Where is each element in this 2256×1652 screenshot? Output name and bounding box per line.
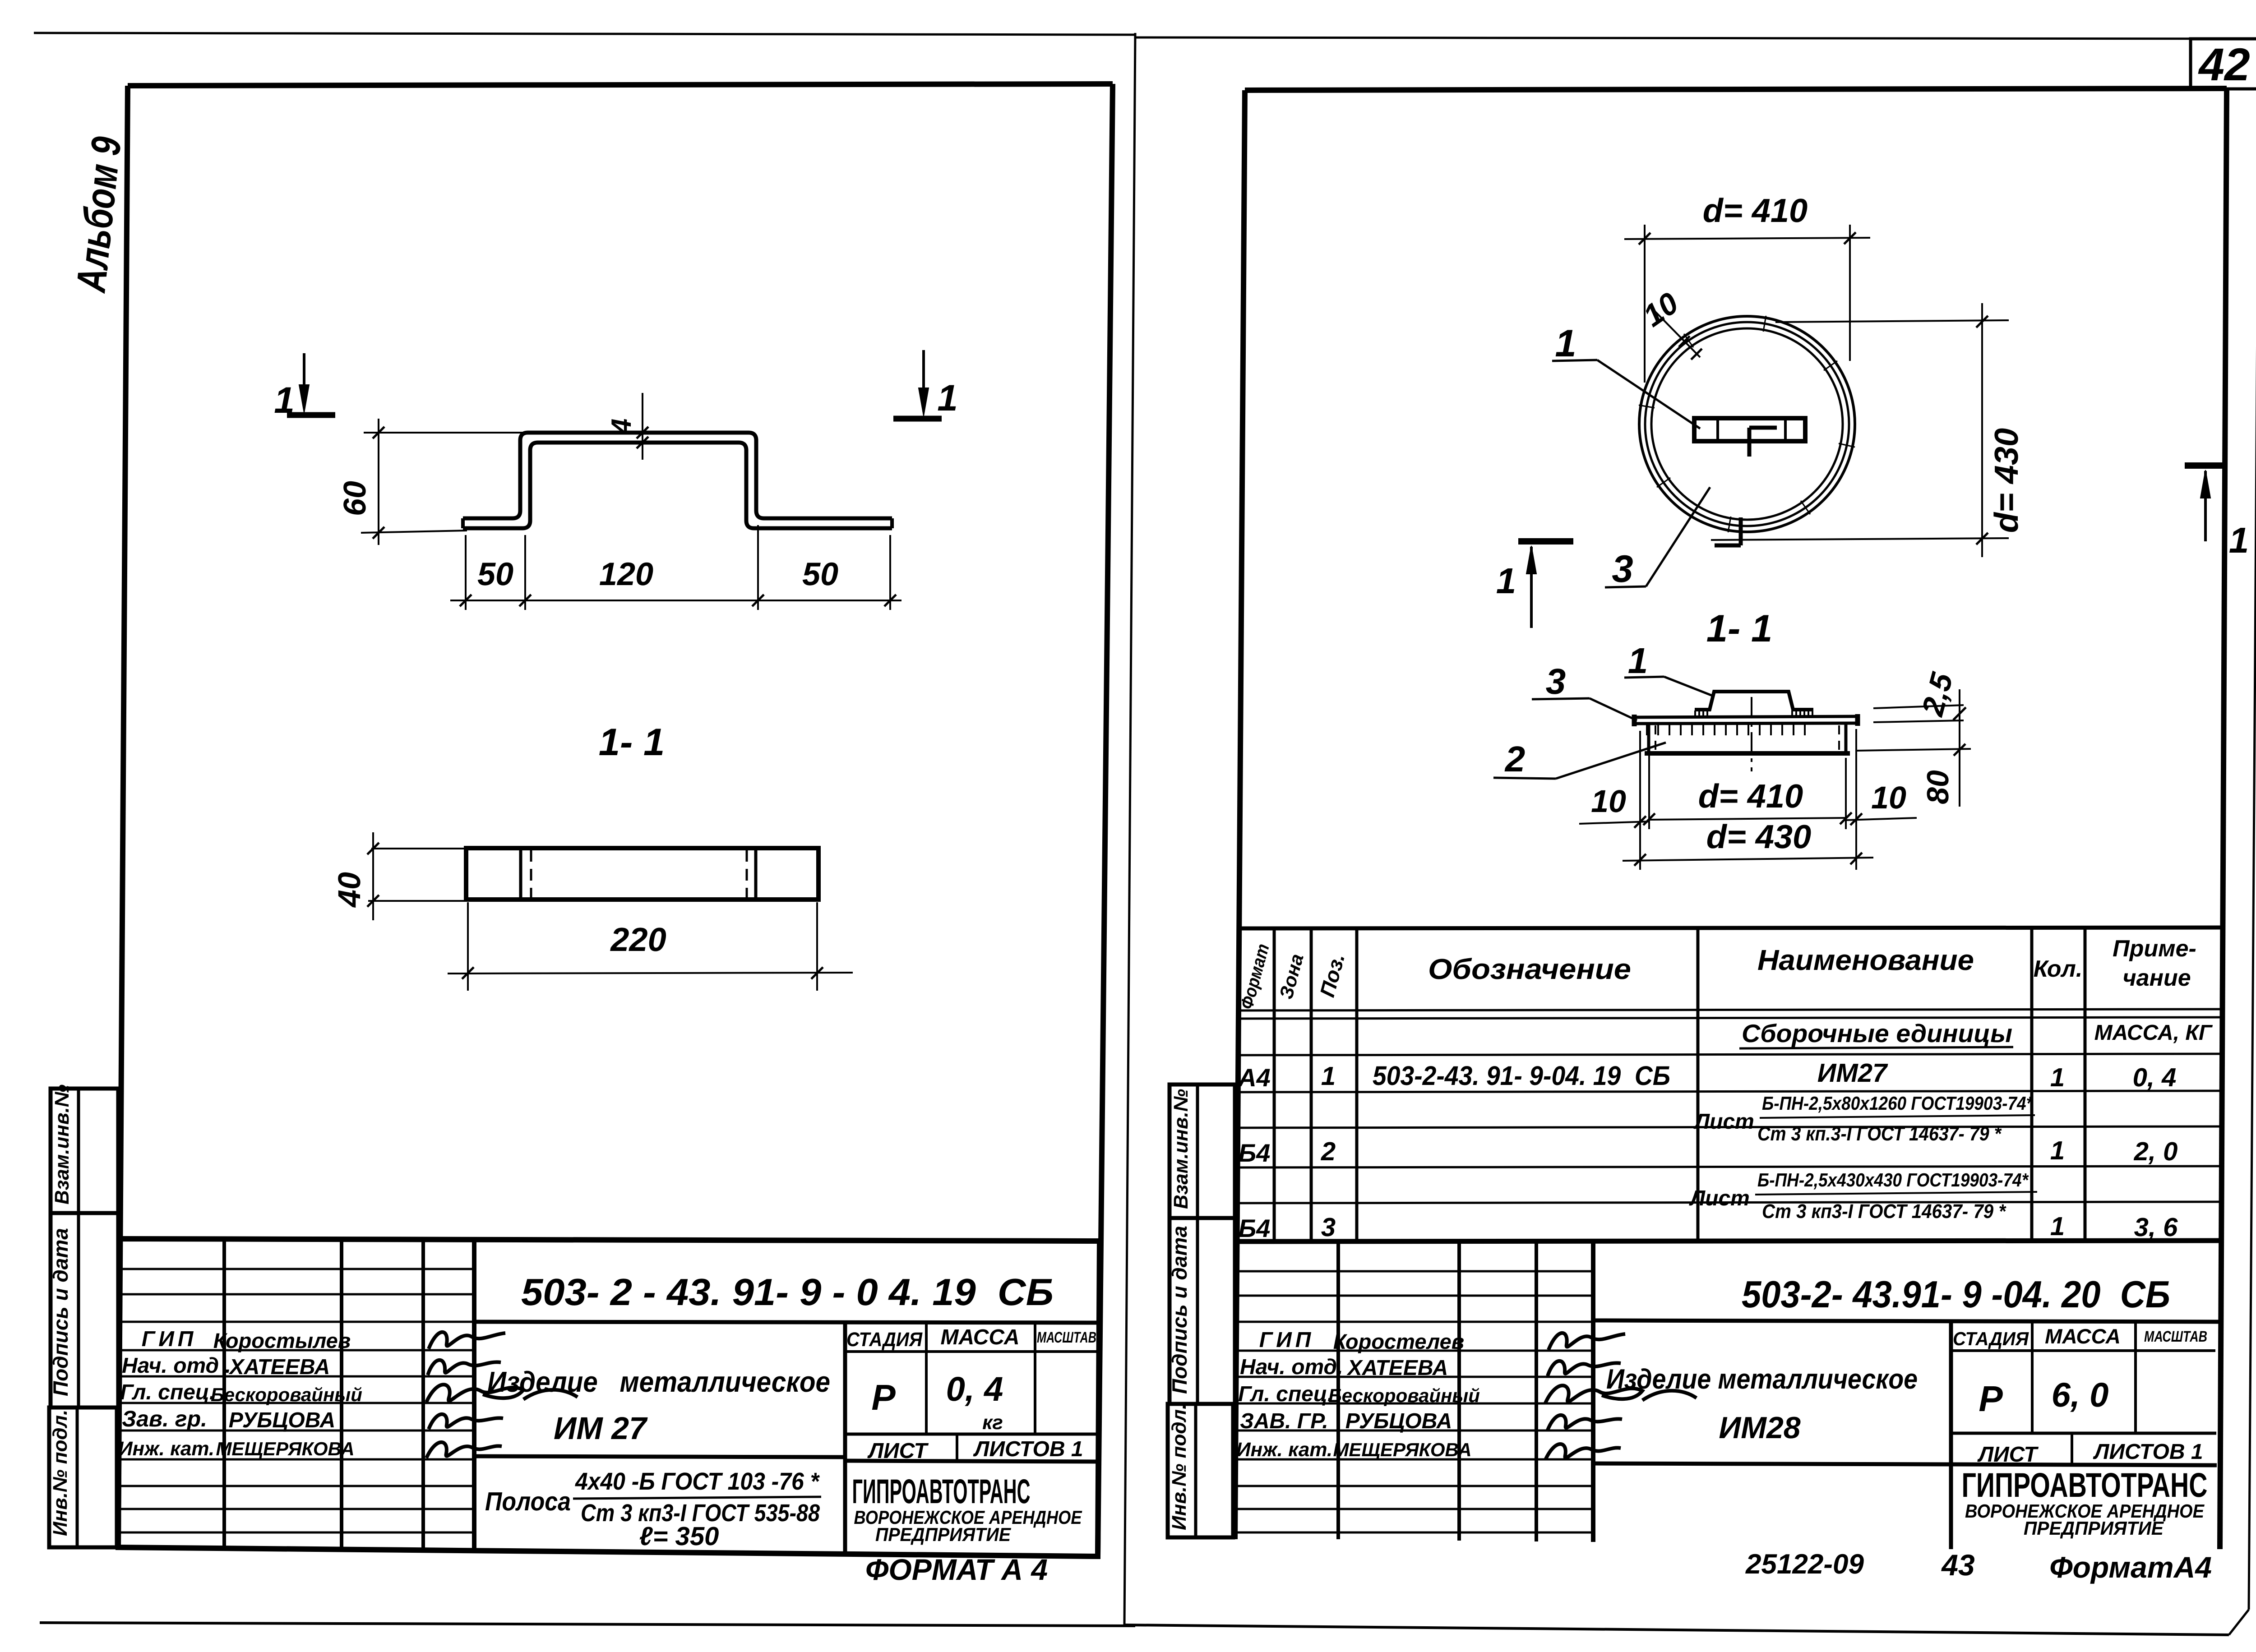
svg-text:d= 430: d= 430 (1988, 428, 2025, 533)
spec col line oboznachenie (1697, 928, 1700, 1241)
signature row4 right (1548, 1415, 1622, 1430)
spec header bottom double line (1237, 1009, 2221, 1011)
dimension 2.5 (1873, 705, 1964, 708)
svg-text:43: 43 (1941, 1548, 1974, 1582)
spec col line naimenovanie (2030, 928, 2034, 1241)
svg-text:Инв.№ подл.: Инв.№ подл. (49, 1410, 71, 1536)
svg-text:1: 1 (274, 380, 295, 421)
left tb personnel row line 2 (118, 1293, 474, 1296)
svg-text:ФорматА4: ФорматА4 (2049, 1550, 2212, 1584)
svg-text:МЕЩЕРЯКОВА: МЕЩЕРЯКОВА (1333, 1439, 1471, 1460)
svg-text:10: 10 (1871, 780, 1906, 815)
svg-text:МАССА: МАССА (940, 1325, 1019, 1349)
right tb stadia col left (1949, 1320, 1953, 1549)
svg-text:10: 10 (1591, 784, 1626, 819)
signature row4 left (429, 1414, 503, 1429)
signature row3 left (426, 1384, 578, 1402)
svg-text:503- 2 - 43. 91- 9 - 0 4. 19: 503- 2 - 43. 91- 9 - 0 4. 19 СБ (521, 1271, 1054, 1313)
right tb personnel col line 1 (1336, 1241, 1340, 1539)
right frame top (1245, 88, 2227, 90)
page number 42 box (2191, 39, 2256, 89)
svg-text:Нач. отд .: Нач. отд . (122, 1354, 231, 1378)
svg-text:1: 1 (1628, 641, 1648, 681)
dimension 50-120-50 (465, 535, 467, 610)
svg-text:Р: Р (1979, 1379, 2003, 1419)
spec row line 3 (1237, 1126, 2221, 1128)
left frame left edge (118, 86, 128, 1547)
svg-text:ИМ 27: ИМ 27 (554, 1411, 648, 1446)
strip bend line left dashed (530, 850, 532, 898)
left tb product cell bottom (474, 1456, 845, 1457)
svg-text:СТАДИЯ: СТАДИЯ (846, 1329, 923, 1351)
left title block outer border (118, 1239, 1100, 1556)
left stamp box Inv.N podl. (49, 1407, 117, 1547)
svg-text:1: 1 (2050, 1063, 2065, 1092)
svg-text:Нач. отд.: Нач. отд. (1240, 1355, 1343, 1379)
svg-text:Коростылев: Коростылев (213, 1329, 351, 1352)
left tb massa-masshtab divider (1034, 1322, 1036, 1434)
svg-text:ГИПРОАВТОТРАНС: ГИПРОАВТОТРАНС (852, 1472, 1031, 1511)
spec col line poz (1355, 928, 1359, 1241)
right tb list row top (1951, 1432, 2216, 1435)
circle section mark bottom-left (1518, 538, 1573, 545)
svg-text:3: 3 (1546, 661, 1566, 701)
section mark 1 right (893, 416, 942, 422)
left tb personnel row line 8 (118, 1458, 474, 1461)
svg-text:Изделие металлическое: Изделие металлическое (1606, 1364, 1918, 1395)
svg-text:СТАДИЯ: СТАДИЯ (1953, 1328, 2029, 1349)
hat profile right end cap (890, 518, 894, 528)
svg-text:кг: кг (982, 1412, 1003, 1434)
spec col line zona (1310, 928, 1313, 1241)
right stamp box Podpis i data (1170, 1218, 1235, 1404)
svg-text:120: 120 (599, 556, 653, 592)
svg-text:Подпись и дата: Подпись и дата (1168, 1226, 1191, 1394)
hat profile inner line (463, 443, 892, 528)
signature row5 right (1545, 1444, 1621, 1460)
svg-text:Приме-: Приме- (2113, 936, 2196, 962)
right tb massa-masshtab divider (2134, 1320, 2137, 1433)
signature row2 left (428, 1360, 501, 1375)
right tb personnel col line 4 / designation cell left (1591, 1241, 1595, 1542)
right frame right edge (2220, 88, 2227, 1549)
svg-text:220: 220 (610, 921, 666, 958)
svg-text:МАСШТАВ: МАСШТАВ (2144, 1328, 2207, 1345)
svg-text:ПРЕДПРИЯТИЕ: ПРЕДПРИЯТИЕ (2024, 1518, 2164, 1539)
svg-text:ЛИСТОВ 1: ЛИСТОВ 1 (2093, 1440, 2203, 1464)
left page bottom border (40, 1623, 1135, 1626)
right tb org cell top (1951, 1464, 2217, 1465)
signature GIP right (1549, 1333, 1625, 1350)
shell bottom edge (1645, 751, 1850, 756)
right frame left edge (1235, 90, 1245, 1539)
svg-text:25122-09: 25122-09 (1745, 1549, 1864, 1580)
left tb stadia-massa divider (925, 1322, 928, 1434)
bracket plan bend line left (1716, 418, 1719, 441)
svg-text:МЕЩЕРЯКОВА: МЕЩЕРЯКОВА (216, 1438, 354, 1459)
section trace lower hook (1739, 517, 1743, 545)
section trace upper hook (1747, 428, 1752, 457)
svg-text:2, 0: 2, 0 (2134, 1137, 2178, 1166)
dimension 80 (1856, 749, 1971, 751)
left material fraction bar (573, 1497, 821, 1499)
left tb personnel col line 2 (340, 1239, 343, 1549)
right tb personnel row line 10 (1235, 1508, 1593, 1510)
svg-text:Бескоровайный: Бескоровайный (211, 1384, 362, 1405)
dimension 10 left (1579, 821, 1650, 824)
svg-text:МАСШТАВ: МАСШТАВ (1037, 1329, 1096, 1346)
spec col line format (1273, 928, 1276, 1241)
svg-text:Обозначение: Обозначение (1428, 953, 1631, 985)
right tb personnel col line 2 (1457, 1241, 1461, 1541)
svg-text:Лист: Лист (1689, 1186, 1750, 1210)
bracket IM27 in section (1695, 692, 1813, 710)
svg-text:ГИП: ГИП (142, 1327, 197, 1351)
dimension 220 (467, 902, 469, 991)
right tb personnel row line 5 (1235, 1376, 1593, 1378)
dimension d430 right (1775, 320, 2009, 322)
dimension 4 (642, 393, 643, 460)
right tb list-listov divider (2071, 1433, 2073, 1465)
right tb personnel row line 2 (1235, 1295, 1593, 1297)
spec row line 4 (1237, 1166, 2221, 1167)
dimension 60 (364, 432, 527, 434)
svg-text:Инж. кат.: Инж. кат. (118, 1438, 214, 1460)
svg-text:ГИПРОАВТОТРАНС: ГИПРОАВТОТРАНС (1962, 1466, 2208, 1504)
left frame top (128, 84, 1113, 86)
svg-text:3: 3 (1321, 1213, 1336, 1242)
left stamp box Vzam.inv.N (51, 1089, 118, 1213)
svg-text:1: 1 (2050, 1136, 2065, 1165)
weld ticks on ring (1839, 443, 1855, 447)
spec col line kol (2084, 928, 2087, 1241)
left tb list-listov divider (956, 1434, 958, 1461)
left tb org cell top (845, 1461, 1098, 1462)
strip section rectangle (466, 848, 818, 900)
svg-text:d= 410: d= 410 (1703, 192, 1808, 229)
right tb personnel row line 9 (1235, 1485, 1593, 1487)
right tb personnel row line 6 (1235, 1403, 1593, 1405)
left tb personnel row line 10 (118, 1508, 474, 1510)
svg-text:1: 1 (1496, 561, 1516, 601)
svg-text:Р: Р (871, 1377, 896, 1417)
right tb personnel row line 8 (1235, 1458, 1593, 1461)
svg-text:МАССА, КГ: МАССА, КГ (2094, 1021, 2213, 1045)
svg-text:d= 430: d= 430 (1706, 818, 1811, 855)
left tb personnel col line 1 (222, 1239, 226, 1548)
left frame right edge (1098, 84, 1113, 1556)
spec row line 1 (1237, 1054, 2221, 1055)
strip bend line right solid (754, 848, 758, 900)
svg-text:ГИП: ГИП (1259, 1328, 1315, 1352)
svg-text:3, 6: 3, 6 (2134, 1213, 2178, 1242)
svg-text:ИМ27: ИМ27 (1817, 1058, 1888, 1088)
svg-text:4х40 -Б ГОСТ 103 -76 *: 4х40 -Б ГОСТ 103 -76 * (575, 1468, 820, 1495)
svg-text:РУБЦОВА: РУБЦОВА (229, 1408, 336, 1432)
svg-text:Кол.: Кол. (2034, 956, 2083, 982)
svg-text:ХАТЕЕВА: ХАТЕЕВА (228, 1355, 330, 1379)
svg-text:1- 1: 1- 1 (1706, 607, 1772, 650)
svg-text:50: 50 (477, 556, 513, 592)
dimension d430 bottom (1623, 858, 1873, 861)
svg-text:42: 42 (2198, 39, 2250, 90)
left tb stadia header bottom (845, 1350, 1099, 1353)
lid outer circle d=430 (1639, 316, 1855, 532)
weld combs under bracket flanges (1694, 711, 1696, 717)
svg-text:Б4: Б4 (1239, 1139, 1271, 1167)
page divider line (1124, 33, 1135, 1625)
svg-text:Полоса: Полоса (485, 1487, 571, 1516)
svg-text:Взам.инв.№: Взам.инв.№ (51, 1084, 73, 1204)
left tb personnel row line 9 (118, 1485, 474, 1487)
svg-text:ЗАВ. ГР.: ЗАВ. ГР. (1240, 1409, 1328, 1433)
svg-text:d= 410: d= 410 (1698, 777, 1803, 815)
svg-text:3: 3 (1612, 548, 1633, 591)
hatching under lid plate (1646, 724, 1648, 735)
left tb stadia col left (843, 1322, 847, 1556)
shell inner circle (1651, 328, 1843, 520)
left tb personnel row line 1 (118, 1268, 474, 1270)
dimension d410 top (1644, 225, 1646, 383)
svg-text:ФОРМАТ А 4: ФОРМАТ А 4 (865, 1553, 1048, 1586)
strip bend line right dashed (746, 850, 748, 898)
svg-text:Лист: Лист (1693, 1110, 1754, 1134)
svg-text:Ст 3 кп.3-I ГОСТ 14637- 79 *: Ст 3 кп.3-I ГОСТ 14637- 79 * (1757, 1123, 2002, 1145)
svg-text:6, 0: 6, 0 (2052, 1376, 2109, 1414)
svg-text:0, 4: 0, 4 (946, 1370, 1003, 1408)
bracket plan bend line right (1784, 418, 1787, 441)
spec row line 5 (1237, 1202, 2221, 1203)
right page bottom-right corner (2229, 1610, 2249, 1635)
svg-text:1: 1 (2229, 520, 2249, 560)
signature GIP left (429, 1332, 505, 1349)
svg-text:ПРЕДПРИЯТИЕ: ПРЕДПРИЯТИЕ (875, 1524, 1012, 1545)
circle section mark right (2185, 462, 2226, 469)
svg-text:Б-ПН-2,5х80х1260 ГОСТ19903-74*: Б-ПН-2,5х80х1260 ГОСТ19903-74* (1762, 1093, 2033, 1114)
svg-text:Подпись и дата: Подпись и дата (49, 1228, 72, 1396)
right tb personnel row line 11 (1235, 1532, 1593, 1534)
svg-text:МАССА: МАССА (2045, 1324, 2121, 1348)
svg-text:Б-ПН-2,5х430х430 ГОСТ19903-74*: Б-ПН-2,5х430х430 ГОСТ19903-74* (1757, 1169, 2029, 1191)
section mark 1 left (287, 412, 335, 418)
right tb stadia header bottom (1951, 1349, 2215, 1352)
right tb product cell bottom (1593, 1463, 1951, 1464)
section axis line (1751, 697, 1752, 771)
dimension 10 right (1845, 818, 1917, 820)
dimension d410 bottom (1639, 731, 1641, 870)
spec table outer (1237, 928, 2221, 928)
svg-text:Инж. кат.: Инж. кат. (1236, 1439, 1332, 1461)
svg-text:503-2-43. 91- 9-04. 19 СБ: 503-2-43. 91- 9-04. 19 СБ (1373, 1061, 1670, 1091)
svg-text:Коростелев: Коростелев (1333, 1329, 1464, 1353)
svg-text:Гл. спец.: Гл. спец. (120, 1380, 215, 1404)
right stamp box Inv.N podl. (1168, 1404, 1233, 1537)
left tb personnel row line 4 (118, 1349, 474, 1352)
svg-text:чание: чание (2122, 965, 2191, 991)
svg-text:1: 1 (1555, 322, 1576, 365)
left tb personnel row line 7 (118, 1430, 474, 1432)
right tb stadia-massa divider (2031, 1320, 2034, 1433)
svg-text:4: 4 (606, 419, 637, 435)
signature row3 right (1545, 1385, 1697, 1403)
left tb list row top (845, 1433, 1099, 1436)
left tb designation row bottom (474, 1322, 1100, 1323)
svg-text:ХАТЕЕВА: ХАТЕЕВА (1346, 1356, 1448, 1380)
left stamp box Podpis i data (51, 1213, 118, 1407)
svg-text:Взам.инв.№: Взам.инв.№ (1170, 1089, 1192, 1209)
svg-text:503-2- 43.91- 9 -04. 20 СБ: 503-2- 43.91- 9 -04. 20 СБ (1742, 1273, 2170, 1315)
right tb personnel row line 3 (1235, 1321, 1593, 1323)
right tb personnel col line 3 (1535, 1241, 1538, 1541)
svg-text:А4: А4 (1237, 1063, 1271, 1092)
right tb personnel row line 7 (1235, 1430, 1593, 1432)
svg-text:Инв.№ подл.: Инв.№ подл. (1168, 1404, 1190, 1530)
right tb designation row bottom (1593, 1320, 2221, 1322)
svg-text:0, 4: 0, 4 (2133, 1063, 2177, 1092)
strip bend line left solid (519, 848, 522, 900)
left tb personnel row line 11 (118, 1532, 474, 1534)
svg-text:1: 1 (1321, 1061, 1336, 1091)
svg-text:80: 80 (1921, 770, 1955, 804)
svg-text:РУБЦОВА: РУБЦОВА (1345, 1409, 1452, 1433)
right page right border (2249, 39, 2256, 1610)
spec row line 2 (1237, 1091, 2221, 1092)
left tb personnel col line 4 / designation cell left (472, 1239, 476, 1550)
right page top border (1135, 37, 2256, 39)
lid circle d=410 (1645, 322, 1849, 526)
svg-text:1: 1 (937, 378, 958, 419)
hat profile outer line (463, 433, 892, 518)
svg-text:ИМ28: ИМ28 (1719, 1411, 1800, 1445)
left tb personnel row line 6 (118, 1402, 474, 1404)
svg-text:2: 2 (1321, 1137, 1336, 1166)
svg-text:1- 1: 1- 1 (599, 721, 665, 764)
svg-text:60: 60 (337, 481, 372, 516)
signature row5 left (426, 1442, 502, 1458)
svg-text:40: 40 (332, 872, 367, 908)
svg-text:Б4: Б4 (1239, 1214, 1271, 1242)
svg-text:Ст 3 кп3-I ГОСТ 14637- 79 *: Ст 3 кп3-I ГОСТ 14637- 79 * (1762, 1200, 2006, 1223)
svg-text:ЛИСТОВ 1: ЛИСТОВ 1 (973, 1437, 1083, 1461)
svg-text:ЛИСТ: ЛИСТ (867, 1439, 929, 1463)
dimension 40 (371, 848, 464, 849)
svg-text:Гл. спец.: Гл. спец. (1238, 1382, 1333, 1406)
svg-text:ЛИСТ: ЛИСТ (1977, 1443, 2039, 1467)
lid plate item 3 section (1635, 716, 1857, 717)
right tb personnel row line 1 (1235, 1270, 1593, 1273)
hat profile left end cap (461, 518, 465, 528)
left page top border (34, 33, 1135, 35)
svg-text:2: 2 (1504, 739, 1526, 779)
left tb personnel row line 5 (118, 1375, 474, 1378)
svg-text:1: 1 (2050, 1212, 2065, 1241)
signature row2 right (1548, 1361, 1621, 1376)
svg-text:ℓ= 350: ℓ= 350 (639, 1522, 719, 1551)
left tb personnel col line 3 (421, 1239, 425, 1550)
svg-text:50: 50 (802, 556, 838, 592)
svg-text:Наименование: Наименование (1757, 944, 1974, 976)
right stamp box Vzam.inv.N (1170, 1084, 1235, 1218)
svg-text:Зав. гр.: Зав. гр. (122, 1406, 207, 1431)
bracket IM27 plan rectangle (1694, 418, 1805, 441)
right tb personnel row line 4 (1235, 1350, 1593, 1352)
shell item 2 walls (1647, 724, 1650, 754)
right page bottom border (1124, 1625, 2229, 1635)
left tb personnel row line 3 (118, 1321, 474, 1323)
svg-text:Бескоровайный: Бескоровайный (1328, 1385, 1480, 1406)
svg-text:Сборочные единицы: Сборочные единицы (1742, 1019, 2012, 1047)
